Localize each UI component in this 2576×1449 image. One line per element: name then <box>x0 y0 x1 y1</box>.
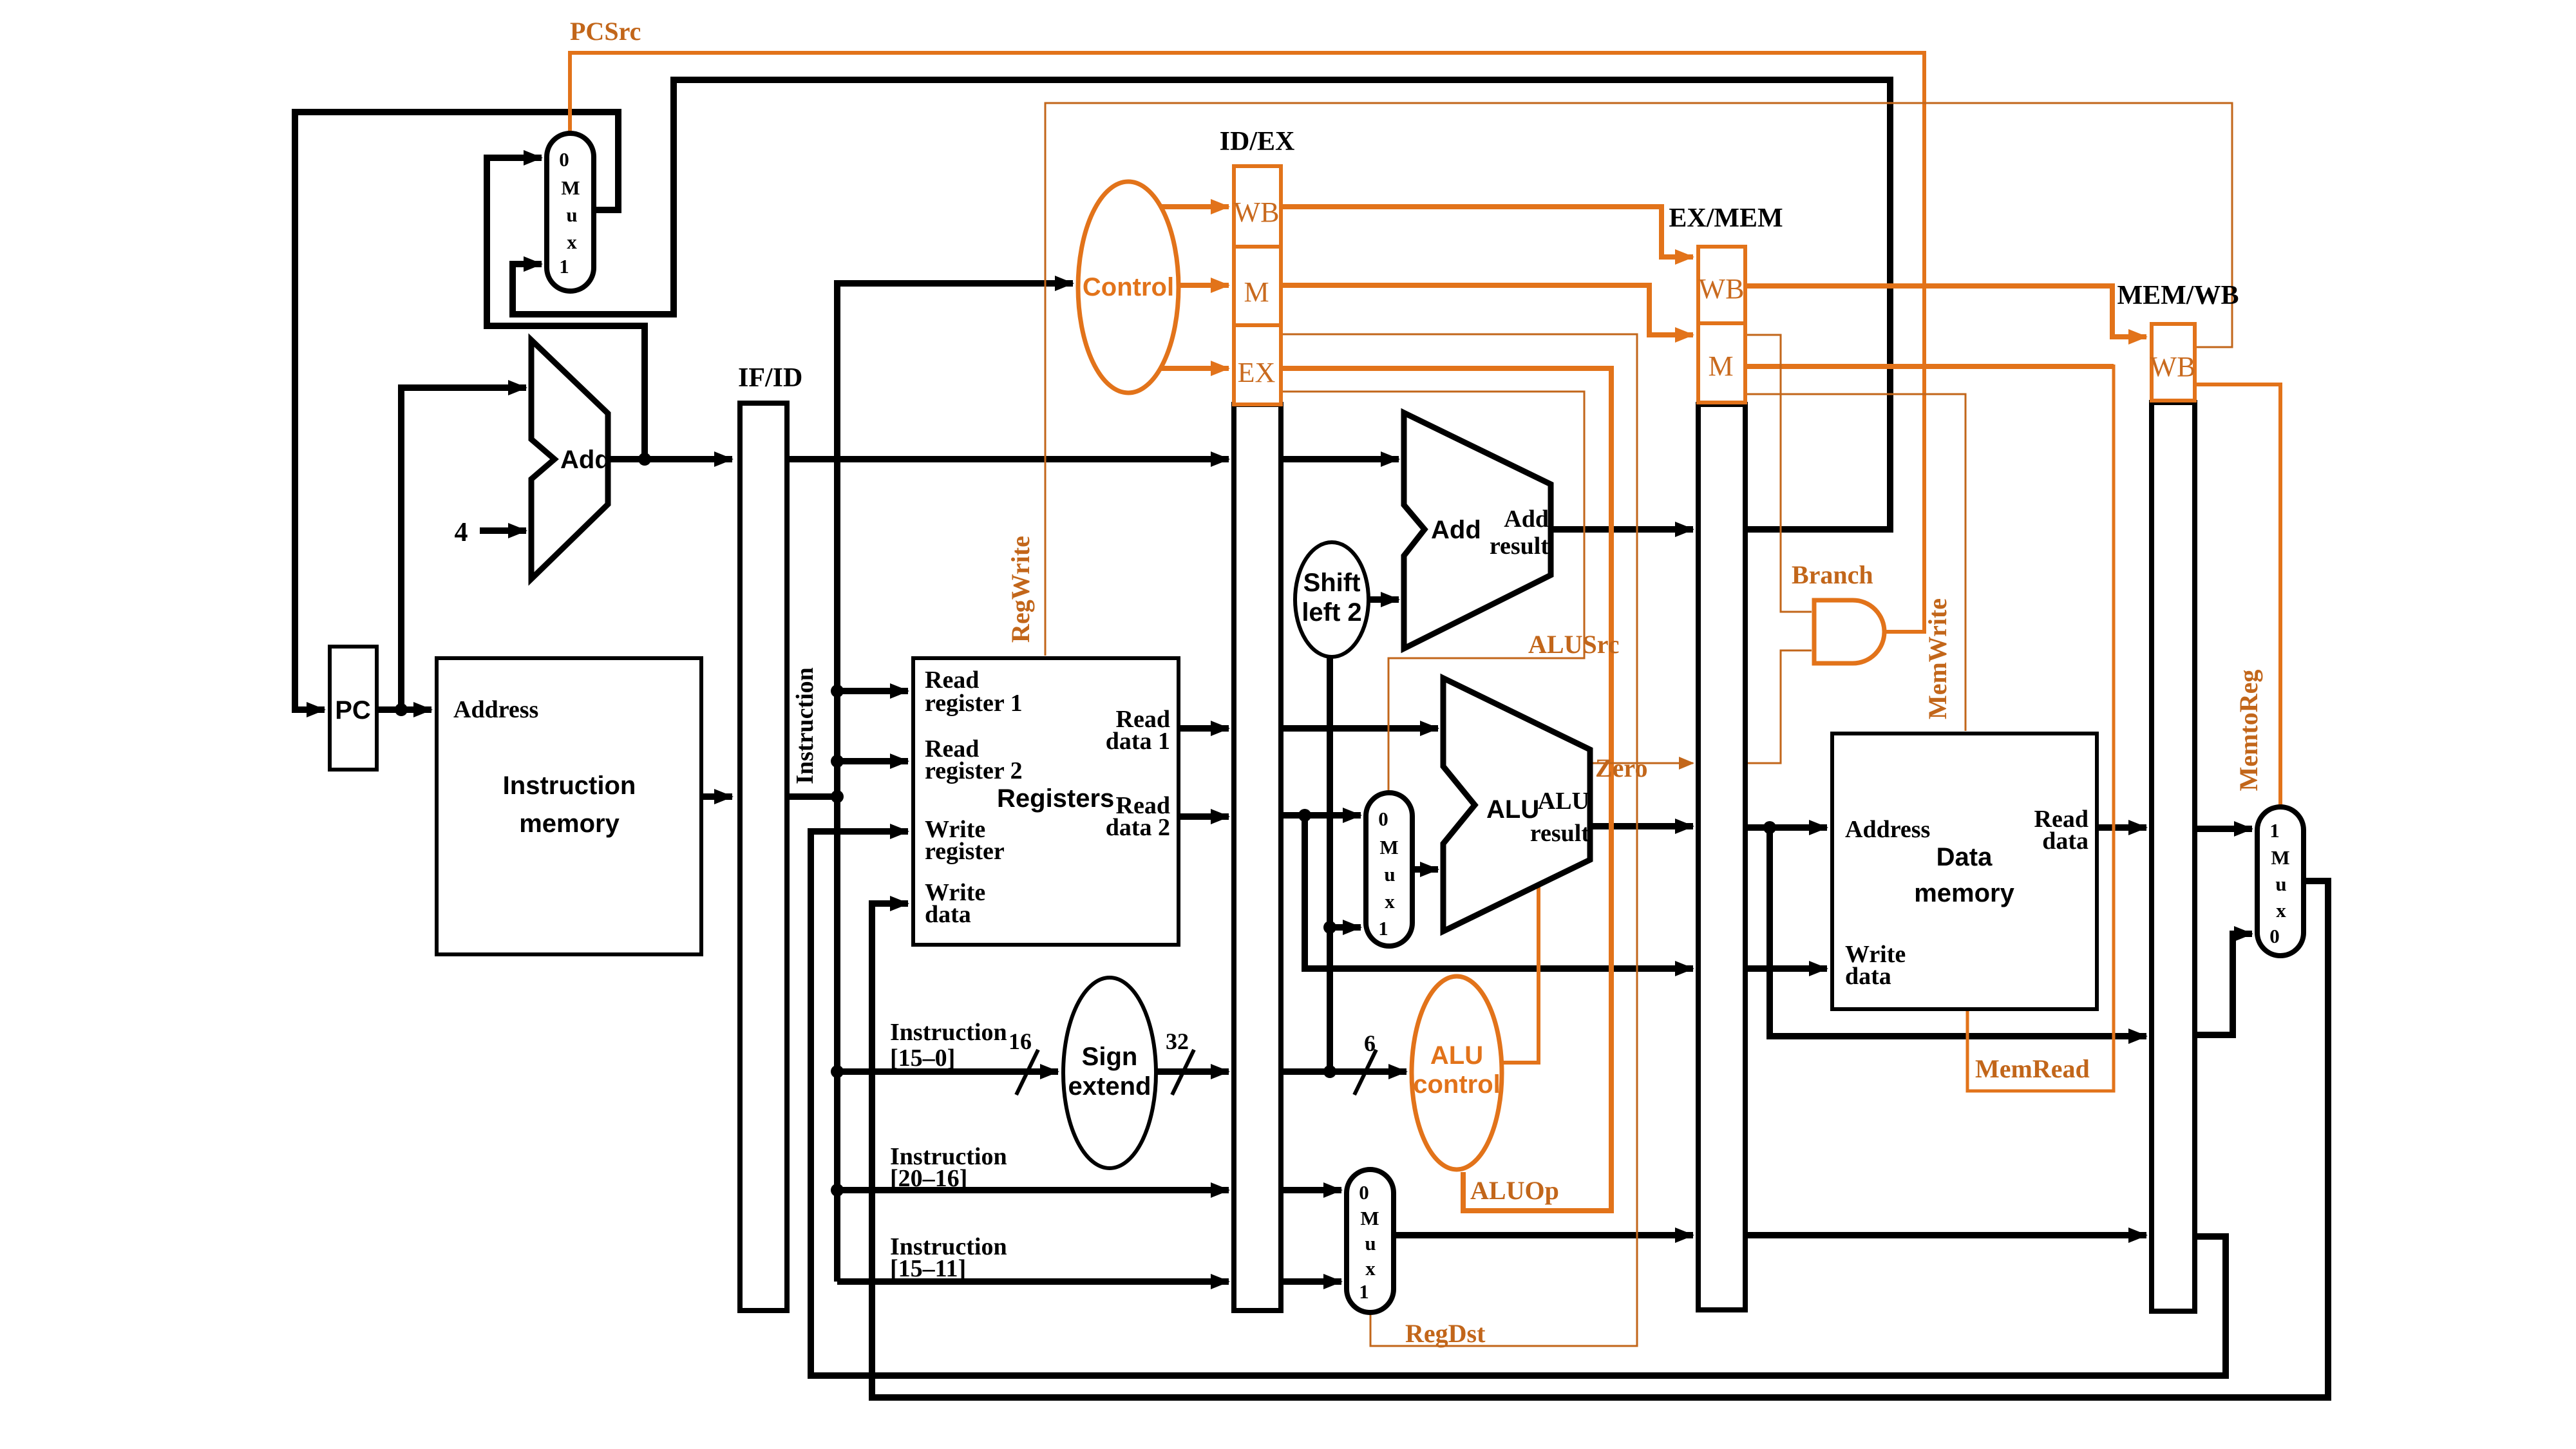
svg-text:Instruction: Instruction <box>890 1019 1007 1046</box>
svg-text:0: 0 <box>1378 808 1388 830</box>
svg-text:memory: memory <box>1914 879 2014 907</box>
svg-text:x: x <box>1385 890 1395 913</box>
svg-text:PC: PC <box>335 696 371 724</box>
svg-text:register 1: register 1 <box>925 690 1023 717</box>
svg-text:Control: Control <box>1083 273 1174 301</box>
svg-text:M: M <box>1708 350 1733 382</box>
svg-text:data 1: data 1 <box>1106 728 1170 755</box>
svg-text:WB: WB <box>1699 273 1745 305</box>
svg-text:u: u <box>1384 863 1395 885</box>
svg-text:u: u <box>2275 873 2286 895</box>
svg-text:x: x <box>1365 1257 1376 1280</box>
svg-text:MEM/WB: MEM/WB <box>2117 281 2239 310</box>
svg-text:WB: WB <box>2150 351 2196 383</box>
svg-text:Add: Add <box>560 446 611 474</box>
svg-text:1: 1 <box>1359 1280 1369 1303</box>
svg-text:MemWrite: MemWrite <box>1923 598 1952 719</box>
svg-text:Address: Address <box>1845 816 1930 843</box>
svg-text:IF/ID: IF/ID <box>738 363 802 393</box>
svg-text:Add: Add <box>1431 516 1481 544</box>
svg-text:1: 1 <box>1378 917 1388 940</box>
svg-text:1: 1 <box>2269 819 2280 842</box>
svg-text:MemRead: MemRead <box>1975 1054 2090 1083</box>
svg-text:ALU: ALU <box>1538 788 1589 815</box>
svg-text:32: 32 <box>1166 1028 1189 1054</box>
svg-text:[15–11]: [15–11] <box>890 1255 966 1282</box>
svg-text:ID/EX: ID/EX <box>1220 127 1295 156</box>
svg-text:ALU: ALU <box>1430 1041 1483 1070</box>
svg-text:PCSrc: PCSrc <box>570 17 641 46</box>
svg-text:EX: EX <box>1238 357 1276 388</box>
svg-text:M: M <box>1379 836 1398 858</box>
svg-text:M: M <box>2271 846 2289 869</box>
svg-text:0: 0 <box>559 148 569 171</box>
svg-text:Branch: Branch <box>1792 560 1873 589</box>
svg-text:4: 4 <box>455 518 468 547</box>
svg-text:Data: Data <box>1937 843 1993 871</box>
svg-text:Add: Add <box>1504 506 1549 533</box>
svg-text:x: x <box>567 231 577 253</box>
svg-text:16: 16 <box>1009 1028 1032 1054</box>
svg-text:data: data <box>925 901 971 928</box>
svg-text:M: M <box>1244 276 1269 308</box>
svg-text:ALUOp: ALUOp <box>1470 1176 1559 1205</box>
svg-text:[20–16]: [20–16] <box>890 1165 967 1192</box>
svg-text:Shift: Shift <box>1303 569 1361 597</box>
svg-text:[15–0]: [15–0] <box>890 1045 955 1072</box>
svg-text:0: 0 <box>2269 925 2280 947</box>
svg-text:x: x <box>2276 899 2286 922</box>
svg-text:WB: WB <box>1234 196 1280 228</box>
svg-text:data: data <box>1845 963 1891 990</box>
svg-text:data: data <box>2042 828 2088 855</box>
svg-text:left 2: left 2 <box>1302 598 1361 627</box>
svg-text:M: M <box>1360 1207 1379 1229</box>
svg-text:M: M <box>561 176 580 199</box>
svg-text:Zero: Zero <box>1595 753 1647 782</box>
svg-text:register: register <box>925 838 1005 865</box>
svg-text:1: 1 <box>559 255 569 278</box>
svg-text:RegWrite: RegWrite <box>1006 536 1035 643</box>
svg-text:MemtoReg: MemtoReg <box>2234 670 2263 791</box>
svg-text:Instruction: Instruction <box>791 667 819 784</box>
svg-text:Address: Address <box>453 696 538 723</box>
svg-text:control: control <box>1413 1070 1501 1099</box>
svg-text:extend: extend <box>1068 1072 1151 1101</box>
svg-text:RegDst: RegDst <box>1405 1319 1486 1348</box>
svg-text:6: 6 <box>1364 1030 1376 1056</box>
svg-text:Sign: Sign <box>1082 1043 1138 1071</box>
svg-text:EX/MEM: EX/MEM <box>1669 204 1783 233</box>
svg-text:memory: memory <box>519 810 620 838</box>
svg-text:data 2: data 2 <box>1106 814 1170 841</box>
svg-text:result: result <box>1530 820 1590 847</box>
svg-text:0: 0 <box>1359 1181 1369 1204</box>
svg-text:ALUSrc: ALUSrc <box>1528 630 1619 659</box>
svg-text:u: u <box>1365 1232 1376 1255</box>
svg-text:Registers: Registers <box>997 784 1114 813</box>
svg-text:result: result <box>1490 533 1549 560</box>
svg-text:Instruction: Instruction <box>503 772 636 800</box>
svg-text:register 2: register 2 <box>925 757 1023 784</box>
svg-text:u: u <box>566 204 577 226</box>
